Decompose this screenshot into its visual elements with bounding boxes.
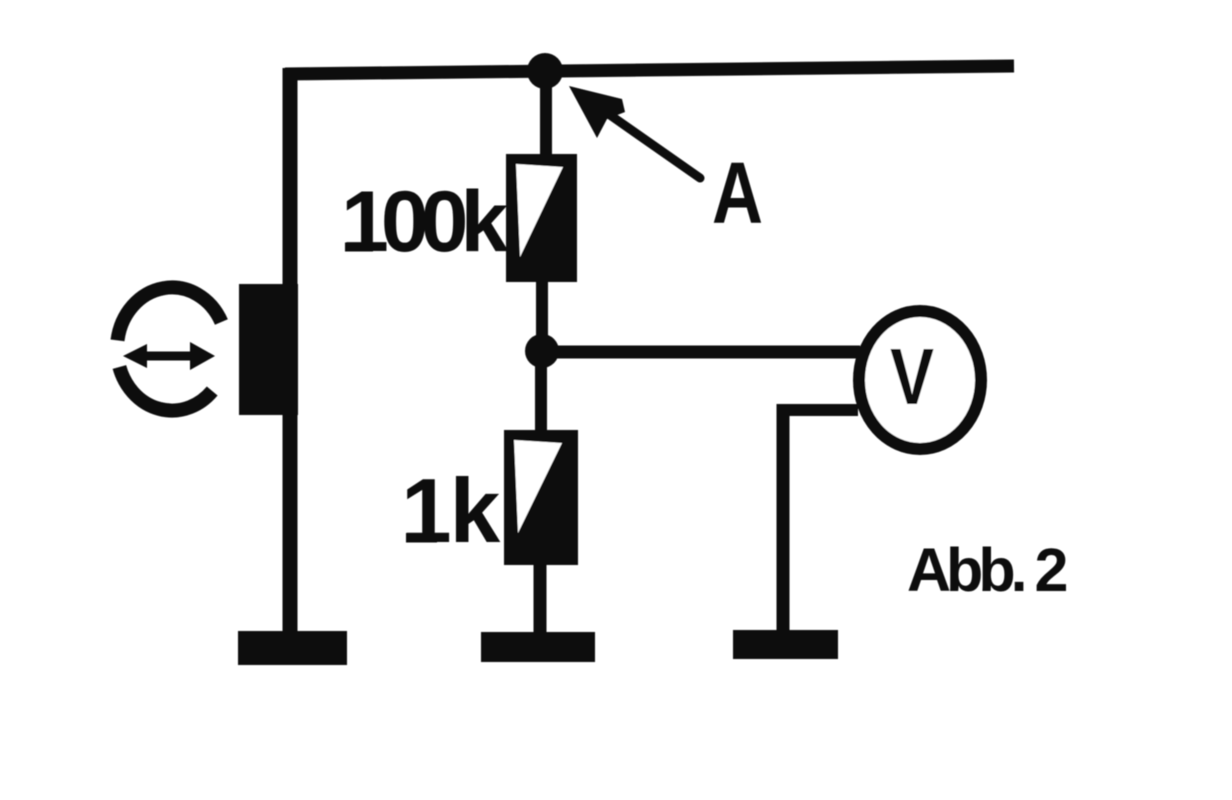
wire left vertical branch xyxy=(283,68,298,632)
svg-text:100k: 100k xyxy=(341,174,508,270)
wire tap node to voltmeter xyxy=(542,346,860,359)
generator G (AC source circle, upper arc) xyxy=(118,287,222,340)
generator arrow (double headed) xyxy=(123,342,215,370)
ground middle (bar) xyxy=(481,632,595,662)
node junction (divider tap) xyxy=(525,334,559,368)
svg-text:V: V xyxy=(890,332,934,421)
svg-text:A: A xyxy=(712,145,763,242)
wire voltmeter lower lead vertical to ground xyxy=(777,404,790,632)
ground left (bar) xyxy=(238,631,347,665)
voltmeter V (circle) xyxy=(859,311,981,449)
wire top supply rail xyxy=(285,66,1014,74)
wire node A to resistor 100k xyxy=(540,71,552,160)
node A (junction dot on top rail) xyxy=(527,53,563,89)
wire resistor 1k to ground xyxy=(534,565,547,634)
arrow pointing to node A xyxy=(569,86,700,178)
svg-text:1k: 1k xyxy=(401,461,501,562)
wire tap node to resistor 1k xyxy=(535,351,547,436)
wire resistor 100k to middle node xyxy=(536,282,548,352)
resistor R1 100k (LDR-style box, half filled) xyxy=(506,154,577,282)
wire voltmeter lower lead horizontal xyxy=(782,404,858,416)
resistor R2 1k (LDR-style box, half filled) xyxy=(504,430,578,565)
generator G (AC source circle, lower arc) xyxy=(119,367,212,411)
svg-text:Abb. 2: Abb. 2 xyxy=(907,536,1066,604)
ground right (bar) xyxy=(733,630,838,659)
transducer coupling block xyxy=(239,284,298,415)
